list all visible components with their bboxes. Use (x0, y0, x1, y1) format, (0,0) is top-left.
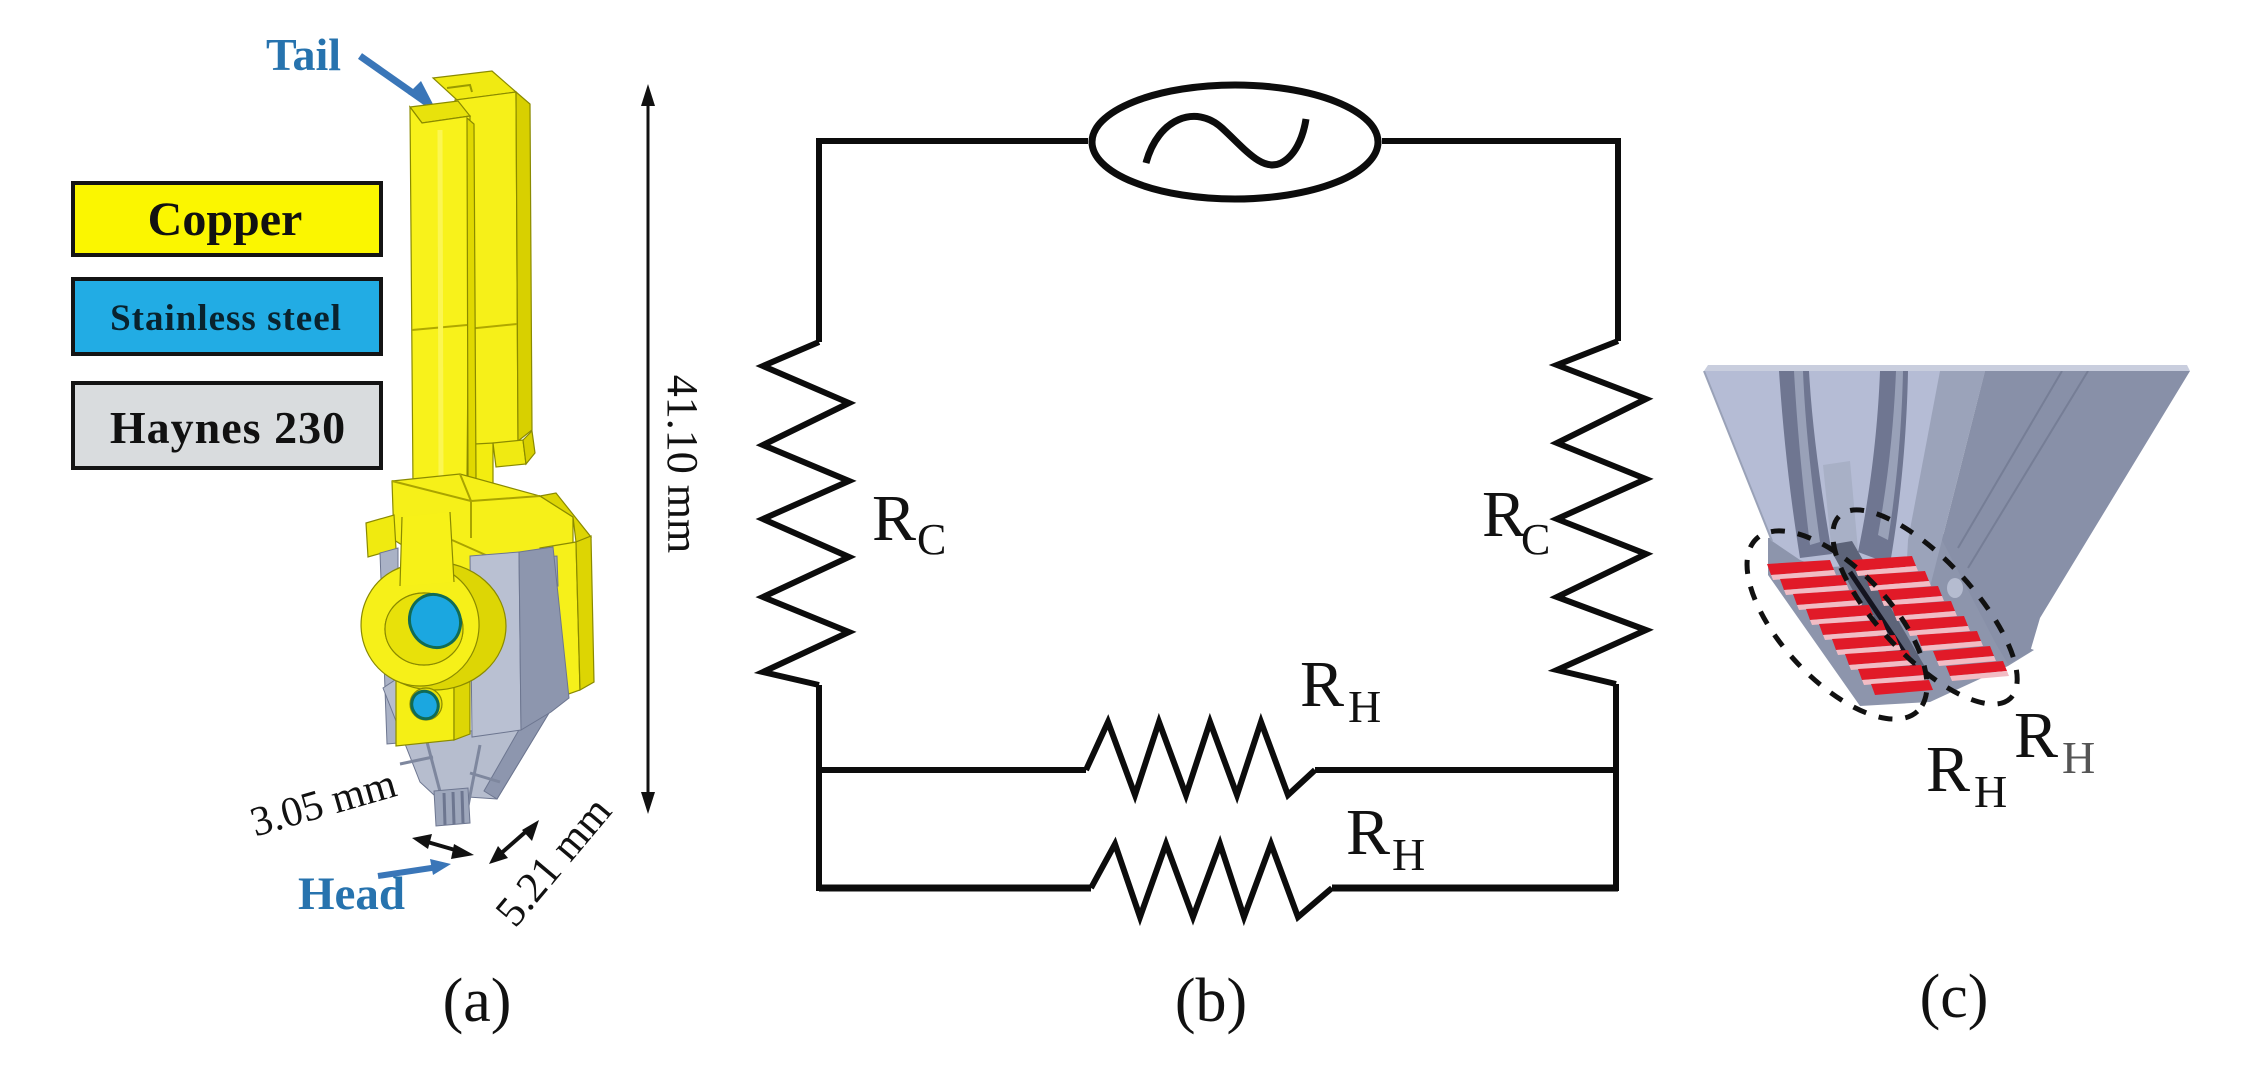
rear rod top face (433, 71, 516, 100)
gray slab under arm (496, 556, 558, 592)
dim arrow 5.21 (489, 820, 539, 864)
hole big blue (400, 585, 470, 657)
dim arrow 3.05 (412, 834, 474, 859)
label RH top (1300, 648, 1381, 732)
tip body left edge line (1704, 371, 1772, 541)
neck edges (400, 512, 454, 586)
wire left lower (816, 685, 822, 891)
channel right (1858, 371, 1908, 564)
resistor RH bottom (1091, 844, 1332, 917)
arrow Head (378, 859, 451, 876)
svg-text:R: R (1346, 796, 1390, 869)
svg-text:R: R (1300, 648, 1344, 721)
gray wedge base (383, 678, 552, 799)
label RH bottom (1346, 796, 1425, 880)
lower tab front (396, 670, 454, 746)
bracket vertical right side (576, 536, 594, 690)
red stripes right row (1852, 556, 2009, 681)
svg-text:R: R (1926, 733, 1970, 806)
collar plate (392, 474, 573, 576)
tip body bevel band (1905, 371, 1985, 618)
ring side wall (362, 562, 506, 690)
svg-text:(a): (a) (443, 967, 512, 1035)
tip body dark right face (1942, 371, 2190, 664)
wire RH bottom branch left (819, 885, 1091, 892)
bracket arm right dark (540, 493, 591, 542)
svg-text:C: C (1521, 515, 1550, 564)
lower tab side (454, 670, 470, 740)
resistor RC left (763, 342, 849, 685)
small hole ring (410, 688, 442, 720)
front rod seam (412, 325, 467, 330)
red stripes left row (1767, 560, 1933, 695)
legend Copper (73, 183, 381, 255)
ring front face (361, 564, 479, 686)
dark face striations (1958, 371, 2088, 568)
collar facet lines (392, 474, 540, 560)
3D model gray body (380, 547, 569, 826)
gray dark column (519, 547, 569, 730)
central slot (1828, 541, 1928, 684)
label RH panel c right (2014, 699, 2095, 783)
svg-text:R: R (2014, 699, 2058, 772)
resistor RH top (1086, 722, 1315, 795)
wire top left (819, 141, 1088, 342)
gray left sliver (380, 548, 398, 744)
svg-text:C: C (917, 515, 946, 564)
rear rod right side (516, 92, 532, 441)
3D model ring neck (361, 512, 506, 746)
tip body front face (1704, 371, 1985, 612)
AC source V1 (1092, 85, 1378, 199)
wire RH top branch left (819, 767, 1086, 773)
dashed ellipse left (1716, 501, 1957, 749)
svg-text:H: H (1348, 681, 1381, 732)
tip top edge strip (1704, 365, 2190, 371)
wire RH bottom branch right (1332, 885, 1618, 892)
rear rod step block (493, 440, 526, 467)
svg-text:H: H (2062, 732, 2095, 783)
dimension line 41.10 mm (641, 84, 655, 814)
svg-text:R: R (1482, 478, 1526, 551)
label RC right (1482, 478, 1550, 564)
svg-text:H: H (1392, 829, 1425, 880)
gray wedge right dark (484, 708, 552, 799)
rear rod seam (457, 324, 517, 330)
wedge facet lines (400, 742, 500, 818)
svg-text:(c): (c) (1920, 963, 1989, 1031)
legend Haynes 230 (73, 383, 381, 468)
channel right inner streak (1878, 371, 1903, 540)
hole small blue (407, 686, 444, 723)
front rod highlight (440, 130, 441, 480)
svg-text:Tail: Tail (266, 29, 341, 80)
wire right lower (1613, 684, 1619, 891)
svg-text:(b): (b) (1175, 967, 1247, 1035)
tip teeth (434, 788, 470, 826)
svg-text:Haynes 230: Haynes 230 (110, 402, 346, 453)
front rod front face (410, 107, 470, 487)
svg-text:R: R (872, 482, 916, 555)
svg-text:Stainless steel: Stainless steel (110, 298, 342, 339)
channel left (1779, 371, 1832, 558)
rear rod top notch (447, 85, 472, 92)
resistor RC right (1557, 341, 1646, 684)
legend Stainless steel (73, 279, 381, 354)
central slot line (1850, 572, 1916, 670)
tip body base silhouette (1768, 534, 2034, 706)
svg-text:41.10 mm: 41.10 mm (658, 375, 707, 553)
svg-text:H: H (1974, 766, 2007, 817)
central tongue (1823, 461, 1858, 554)
arrow Tail (360, 56, 436, 110)
bracket vertical front (540, 542, 580, 702)
rear rod lower sliver (456, 443, 493, 525)
collar left block (366, 515, 396, 557)
rear rod step side (523, 431, 535, 464)
label RC left (872, 482, 946, 564)
front rod top face (410, 101, 470, 123)
front rod right edge (467, 118, 476, 482)
3D model head collar (366, 474, 594, 702)
neck (400, 512, 454, 586)
wire RH top branch right (1315, 767, 1616, 773)
rear rod front face (455, 92, 518, 447)
wire top right (1382, 141, 1618, 341)
hole interior (385, 593, 463, 665)
label RH panel c left (1926, 733, 2007, 817)
svg-text:Copper: Copper (148, 193, 303, 246)
channel left inner streak (1794, 371, 1820, 545)
gray light column (470, 552, 521, 737)
dashed ellipse right (1805, 483, 2046, 731)
tip small hole (1947, 578, 1963, 598)
3D model tail rods (410, 71, 535, 525)
